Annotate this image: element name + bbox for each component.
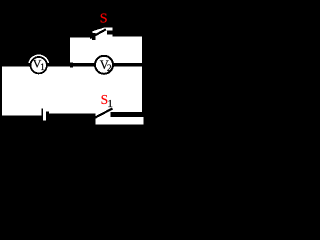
white backing: battery gap xyxy=(43,117,46,121)
node junction at branch xyxy=(70,63,73,68)
wire: left vertical xyxy=(0,63,2,116)
wire: bottom-middle horizontal xyxy=(49,113,96,118)
white halo of voltmeter V1 xyxy=(28,54,49,75)
voltmeter V2 body xyxy=(95,56,113,74)
wire: main horizontal line xyxy=(0,63,146,66)
svg-text:1: 1 xyxy=(107,98,113,110)
battery GB1 short plate xyxy=(46,112,49,122)
svg-text:2: 2 xyxy=(107,64,112,74)
white halo of voltmeter V2 xyxy=(94,54,115,75)
wire: switch S left lead xyxy=(67,30,93,37)
white backing: main band xyxy=(2,66,142,117)
switch S blade xyxy=(90,29,106,38)
switch S1 right contact xyxy=(111,112,115,117)
white backing: switch S1 lower area xyxy=(96,112,144,124)
switch S1 blade xyxy=(91,109,112,120)
battery GB1 long plate xyxy=(42,109,44,122)
white backing: switch S blade halo xyxy=(93,28,113,37)
svg-text:1: 1 xyxy=(40,62,45,72)
wire: bottom-right horizontal xyxy=(111,112,146,117)
white backing: top-right switch branch area xyxy=(70,37,142,66)
wire: right vertical xyxy=(142,28,146,117)
switch S left contact xyxy=(92,33,96,40)
background canvas xyxy=(0,0,148,133)
switch S right contact xyxy=(107,30,112,34)
wire: top branch left vertical xyxy=(67,30,71,66)
voltmeter V1 body xyxy=(31,57,47,73)
svg-text:S: S xyxy=(100,12,108,27)
wire: bottom-left horizontal xyxy=(0,116,42,122)
wire: switch S right lead xyxy=(112,29,145,37)
